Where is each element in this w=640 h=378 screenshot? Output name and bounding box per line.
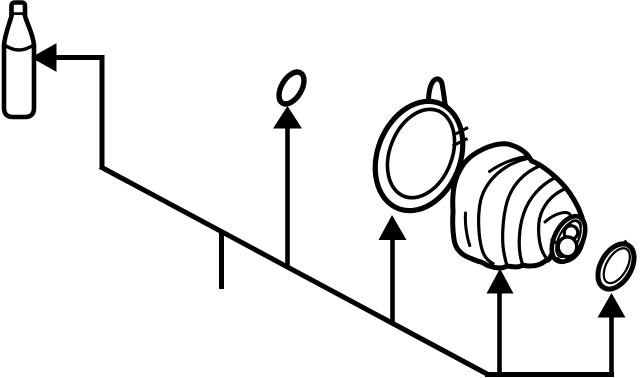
wire: riser to boot bbox=[497, 291, 502, 375]
arrow to bottle (left-pointing) bbox=[32, 44, 56, 71]
boot rib (short, left) bbox=[465, 213, 469, 246]
bottle cap base line bbox=[12, 12, 26, 17]
collar tick left bbox=[552, 240, 561, 247]
small clamp nub bbox=[625, 241, 628, 244]
boot rib (inner lip, top-left) bbox=[490, 157, 526, 172]
boot rib 4 bbox=[539, 190, 564, 259]
wire: riser to O-ring bbox=[285, 126, 290, 268]
bottle body bbox=[4, 15, 34, 117]
boot rib 2 bbox=[503, 166, 540, 265]
arrow up to clamp bbox=[379, 215, 407, 240]
stub circle (upper) bbox=[564, 226, 578, 240]
wire: riser to small clamp bbox=[609, 315, 614, 375]
wire: bottom horizontal bbox=[485, 372, 614, 377]
large boot clamp bbox=[360, 79, 479, 224]
arrow up to boot bbox=[487, 269, 514, 294]
bottle cap bbox=[12, 3, 26, 16]
arrow up to O-ring bbox=[273, 106, 302, 129]
stub circle (lower, front) bbox=[558, 237, 577, 257]
curl at collar top bbox=[569, 221, 581, 227]
clamp ear loop bbox=[429, 79, 447, 107]
boot outer silhouette bbox=[453, 144, 584, 268]
bottle shoulder arc bbox=[5, 45, 34, 50]
arrow up to small clamp bbox=[598, 293, 626, 318]
small-end collar ring (outer) bbox=[545, 211, 592, 267]
collar tick bottom bbox=[558, 259, 564, 263]
boot wrinkle above collar bbox=[545, 212, 571, 222]
grease tube (bottle) bbox=[4, 3, 34, 118]
small O-ring / band (top middle) bbox=[274, 68, 309, 108]
stub line hanging from diagonal bbox=[219, 230, 224, 289]
wire: riser to clamp bbox=[390, 238, 395, 323]
small-end collar ring (inner) bbox=[551, 217, 586, 260]
boot rib 1 bbox=[479, 159, 528, 264]
boot rib 3 bbox=[519, 178, 555, 265]
wire: horizontal from bottle arrow bbox=[54, 55, 102, 60]
wire: vertical down bbox=[100, 55, 105, 168]
wire: long diagonal bbox=[100, 167, 488, 375]
CV boot (bellows) bbox=[453, 144, 592, 268]
small clamp (bottom right) bbox=[590, 238, 640, 296]
clamp band ticks bbox=[456, 128, 469, 135]
